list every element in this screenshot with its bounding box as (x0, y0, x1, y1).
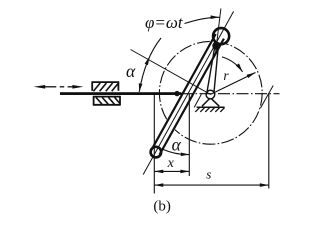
pivot circle O (206, 90, 215, 99)
short line left of support (194, 94, 201, 107)
extension line middle (axis crossing) (188, 94, 190, 176)
x dim left arrowhead (154, 170, 163, 174)
leader arrow from phi label (185, 17, 220, 23)
support ground hatching (195, 108, 224, 112)
slotted link shaft left edge (152, 34, 216, 150)
rod-link pin joint (174, 91, 179, 96)
crank bar right line (214, 47, 218, 93)
link axis centerline (thin) (143, 11, 233, 174)
crank rotation angle arc phi (222, 57, 243, 72)
slotted link top eye ring (213, 28, 229, 44)
extreme position axis tick (right) (261, 86, 274, 109)
lower alpha arc arrowhead (181, 153, 190, 157)
svg-text:s: s (206, 166, 211, 181)
s dim right arrowhead (260, 183, 269, 187)
lower guide hatching (96, 97, 120, 104)
horizontal dash-dot center line (181, 93, 280, 95)
upper guide left end (91, 81, 93, 90)
svg-text:(b): (b) (153, 199, 171, 215)
pivot support triangle left leg (202, 99, 210, 107)
middle dash (60, 86, 64, 88)
x dim right arrowhead (180, 170, 189, 174)
crank centerline from pin extended up (216, 9, 221, 54)
svg-text:φ=ωt: φ=ωt (145, 13, 184, 32)
right arrow shaft (68, 86, 75, 88)
left arrow shaft (44, 86, 56, 88)
perpendicular line through O (131, 50, 211, 95)
svg-text:x: x (167, 156, 175, 171)
r arrowhead (247, 73, 256, 79)
s dim left arrowhead (154, 183, 163, 187)
leader arrowhead (211, 15, 220, 19)
lower guide left end (93, 96, 95, 106)
upper alpha arc middle arrowhead (145, 57, 150, 66)
piston rod (60, 92, 182, 95)
lower alpha angle arc (163, 149, 189, 154)
reciprocation double arrow right head (72, 85, 83, 89)
lower guide bottom line (93, 104, 120, 106)
lower guide right end (119, 96, 121, 106)
svg-text:α: α (172, 134, 182, 154)
crank bar left line (207, 46, 215, 93)
lower guide block top line (93, 96, 120, 98)
upper guide block top line (92, 81, 119, 83)
svg-text:r: r (223, 68, 229, 83)
x dimension line (154, 170, 189, 172)
extension line left (stroke left end) (153, 94, 155, 194)
radius line r with arrow (211, 73, 256, 95)
arrowhead of phi arc (236, 63, 243, 72)
slotted link bottom cap ring (151, 147, 162, 158)
crank pin path circle (dash-dot) (159, 41, 262, 144)
extension line right (stroke right end) (268, 94, 270, 189)
support ground line (197, 106, 225, 108)
upper alpha arc bottom arrowhead (139, 83, 143, 92)
pivot support triangle right leg (211, 99, 219, 107)
alpha angle arc (upper) (139, 38, 161, 92)
upper guide right end (117, 81, 119, 90)
svg-text:α: α (126, 61, 136, 81)
crank pin A (filled) (212, 42, 220, 50)
upper guide hatching (93, 83, 118, 91)
reciprocation double arrow left head (34, 85, 46, 89)
slotted link shaft right edge (160, 39, 224, 155)
slotted link body (white fill) (150, 27, 231, 159)
s dimension line (154, 184, 268, 186)
